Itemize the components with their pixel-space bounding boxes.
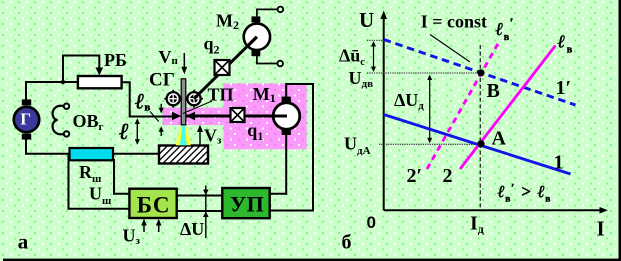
svg-text:Г: Г [20,110,31,129]
svg-text:I: I [597,217,605,241]
svg-text:A: A [492,128,507,150]
svg-text:2: 2 [443,165,453,187]
svg-text:1: 1 [554,152,564,174]
svg-text:УП: УП [230,192,264,217]
svg-text:2′: 2′ [407,165,423,187]
svg-text:I = const: I = const [421,12,487,32]
svg-text:а: а [18,230,29,254]
svg-text:ТП: ТП [208,85,234,105]
svg-text:ℓ: ℓ [119,119,129,144]
svg-text:1′: 1′ [556,77,572,99]
svg-text:СГ: СГ [149,70,175,91]
svg-text:БС: БС [137,193,171,218]
svg-text:B: B [487,80,500,102]
svg-text:РБ: РБ [104,50,127,70]
svg-text:ΔU: ΔU [180,219,204,239]
svg-text:0: 0 [367,213,376,232]
svg-text:б: б [342,232,352,254]
svg-text:U: U [359,8,374,32]
